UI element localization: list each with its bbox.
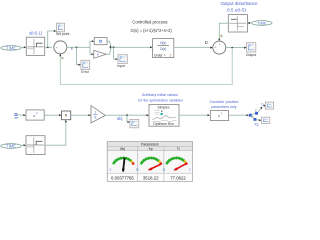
scope Input (117, 55, 127, 68)
scope Output (246, 43, 257, 57)
svg-text:u(t-0.1): u(t-0.1) (29, 30, 43, 35)
svg-text:-2: -2 (136, 168, 139, 172)
wire step to sum1 with tap up to Set point scope (45, 30, 57, 48)
wire TIME to step (bottom) (21, 144, 26, 146)
svg-text:Arbitrary initial values: Arbitrary initial values (142, 93, 178, 97)
optimizer block Simplex Optimum Run (149, 104, 179, 126)
product block (62, 111, 71, 120)
gauge Ti dial (162, 156, 191, 171)
svg-text:Set point: Set point (56, 32, 69, 36)
clock input TIME (bottom) (1, 144, 22, 149)
wire TIME to Set point step (21, 46, 26, 48)
gauge Obj dial (109, 156, 138, 171)
svg-text:0.00377765: 0.00377765 (111, 176, 134, 181)
sum junction 1 (error) (54, 41, 67, 54)
svg-text:-2: -2 (162, 168, 165, 172)
sum junction 2 (output) (213, 41, 226, 54)
scope Kp (262, 117, 270, 123)
svg-text:Optimum Run: Optimum Run (153, 122, 174, 126)
svg-text:Output disturbance: Output disturbance (220, 1, 258, 6)
svg-text:Parameters: Parameters (141, 142, 159, 146)
selector branch Ti (upper) (252, 103, 266, 115)
needle Obj (123, 158, 125, 172)
clock input TIME (disturbance) (252, 21, 272, 26)
svg-text:77.0622: 77.0622 (170, 176, 186, 181)
svg-text:Error: Error (81, 70, 90, 74)
svg-text:3518.22: 3518.22 (143, 176, 159, 181)
scope Set point (56, 23, 69, 36)
svg-text:D(s): D(s) (160, 47, 166, 51)
svg-text:D: D (205, 40, 208, 45)
svg-text:Simplex: Simplex (157, 105, 169, 109)
clock input TIME (top-left) (1, 45, 21, 50)
svg-text:2: 2 (170, 53, 172, 57)
svg-text:Kp: Kp (149, 147, 153, 151)
svg-text:1: 1 (95, 110, 97, 114)
needle Ti (174, 164, 186, 171)
svg-text:Ti: Ti (177, 147, 180, 151)
svg-text:TIME: TIME (6, 45, 16, 50)
svg-text:for the optimization variables: for the optimization variables (138, 98, 183, 102)
scope obj (unlabeled) (130, 119, 139, 127)
svg-text:K: K (97, 53, 99, 57)
wire disturbance d down into sum2 (218, 23, 228, 41)
wire obj to optimizer, tap to scope (105, 114, 149, 123)
svg-text:0.5 u(t-5): 0.5 u(t-5) (227, 7, 246, 12)
from tag err (15, 114, 26, 121)
wire TIME into flipped block (247, 22, 252, 24)
wire sum2 to Output scope (226, 47, 247, 49)
step source (final time) (26, 136, 45, 155)
wire optimizer to u^2 (params) (179, 114, 210, 116)
svg-text:TIME: TIME (257, 21, 267, 26)
wire product to gain (71, 114, 91, 116)
math block u^2 (positive params) (210, 111, 228, 121)
svg-text:G(s) = (s+1)/(s^2+s+2): G(s) = (s+1)/(s^2+s+2) (131, 28, 173, 33)
transfer fcn block N(s)/D(s) Order = 2 (153, 39, 174, 58)
gain triangle 1/tf (91, 106, 105, 123)
svg-text:Input: Input (117, 64, 125, 68)
svg-text:Obj: Obj (120, 147, 126, 151)
svg-text:Ti: Ti (261, 103, 264, 107)
integrator block (94, 38, 107, 45)
math block u^2 (error squared) (26, 110, 44, 120)
gain triangle K (94, 50, 107, 58)
merge of PI branches (106, 41, 111, 54)
svg-text:obj: obj (117, 116, 123, 121)
wire y: TF to sum2, label D (174, 40, 213, 49)
controller split wires (90, 40, 94, 55)
panel frame Parameters (107, 142, 192, 182)
svg-text:u: u (33, 114, 35, 118)
scope Error (81, 60, 90, 74)
svg-text:Consider positive: Consider positive (209, 100, 238, 104)
wire step up into product bottom (44, 120, 67, 146)
feedback wire to sum1 (59, 48, 232, 85)
svg-text:Order =: Order = (154, 53, 166, 57)
svg-text:u: u (218, 114, 220, 118)
wire e: sum1 to controller split, label e (67, 46, 90, 51)
svg-text:Kp: Kp (255, 123, 259, 127)
svg-text:tf: tf (95, 116, 97, 120)
gauge Kp dial (136, 156, 165, 171)
selector branch Kp (lower) (251, 115, 261, 127)
svg-text:N(s): N(s) (160, 41, 166, 45)
svg-text:Controlled process:: Controlled process: (132, 19, 168, 24)
wire params out to demux point (229, 114, 252, 117)
svg-text:Output: Output (246, 53, 257, 57)
svg-text:parameters only: parameters only (211, 105, 236, 109)
wire drop to Error scope (77, 47, 81, 65)
wire u^2 to product (44, 114, 61, 116)
scope Ti (265, 102, 273, 109)
svg-text:TIME: TIME (6, 144, 16, 149)
needle Kp (149, 164, 161, 170)
step source Set point u(t-0.1) (26, 37, 44, 55)
svg-text:-2: -2 (109, 168, 112, 172)
step source disturbance (flipped) (228, 15, 247, 33)
wire u: merge to transfer fcn, tap to Input scope (112, 46, 153, 60)
